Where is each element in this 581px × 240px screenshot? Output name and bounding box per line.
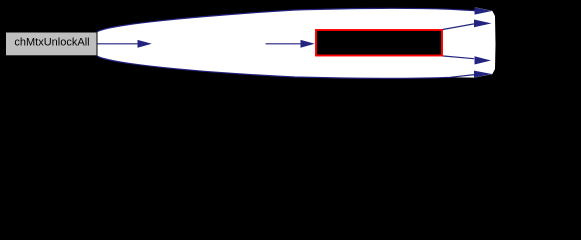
edge E6: red node -> lower-right node (wire) xyxy=(442,56,474,59)
arrowhead E5 xyxy=(474,20,492,28)
arrowhead E4 xyxy=(301,40,315,48)
arrowhead E1 xyxy=(475,7,493,14)
arrowhead E2 xyxy=(138,40,152,48)
arrowhead E3 xyxy=(474,71,492,78)
edge E1: chMtxUnlockAll -> top-right node (wire) xyxy=(98,8,475,31)
node red (truncated node, red border, dark fill) xyxy=(316,30,442,56)
arrowhead E6 xyxy=(475,56,492,64)
edge E5: red node -> upper-right node (wire) xyxy=(442,24,474,30)
edge E4: hidden middle node -> red node (wire) xyxy=(266,43,302,45)
svg-text:chMtxUnlockAll: chMtxUnlockAll xyxy=(14,37,89,49)
edge E2: chMtxUnlockAll -> hidden middle node (wire) xyxy=(98,43,139,45)
white graph region (hull of edges) xyxy=(98,7,496,78)
node chMtxUnlockAll (grey root box) xyxy=(6,32,98,56)
edge E3: chMtxUnlockAll -> bottom-right node (wire) xyxy=(98,56,475,78)
